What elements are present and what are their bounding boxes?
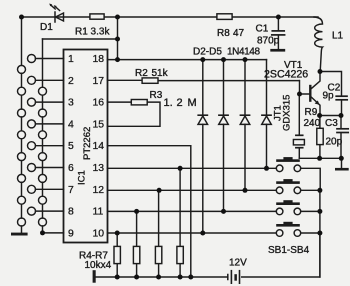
svg-text:2: 2 bbox=[177, 97, 183, 109]
inductor L1 bbox=[314, 17, 323, 72]
resistor R5 column bbox=[136, 211, 138, 277]
svg-text:D2-D5: D2-D5 bbox=[193, 46, 222, 57]
svg-text:47: 47 bbox=[233, 28, 245, 39]
node pin3 pad bbox=[28, 98, 36, 106]
svg-text:R2: R2 bbox=[135, 68, 148, 79]
svg-text:4: 4 bbox=[68, 119, 74, 130]
wire rail2 top link to x=117.5 at y=39 bbox=[43, 38, 118, 40]
resistor R4 column bbox=[116, 233, 118, 277]
node pin5 pad bbox=[28, 142, 36, 150]
diode D5 bbox=[262, 114, 271, 116]
transistor VT1 bbox=[300, 72, 321, 116]
resistor R7 column bbox=[179, 168, 181, 277]
wire bottom supply y=277 bbox=[96, 233, 320, 277]
node pin6 pad bbox=[28, 164, 36, 172]
wire pin18 / diode common y=59.6 bbox=[108, 59, 267, 61]
svg-text:D1: D1 bbox=[40, 22, 53, 33]
node rail1 pads (circles) bbox=[18, 65, 26, 73]
wire collector to C2 bbox=[320, 72, 342, 96]
wire pin9 to rail2 bbox=[43, 232, 64, 234]
svg-text:9p: 9p bbox=[323, 91, 335, 102]
svg-text:240: 240 bbox=[304, 118, 321, 129]
resistor R8 bbox=[217, 14, 232, 20]
svg-text:12: 12 bbox=[93, 185, 105, 196]
svg-text:GDX315: GDX315 bbox=[282, 95, 293, 131]
resistor R9 bbox=[319, 116, 321, 159]
svg-text:R3: R3 bbox=[150, 90, 163, 101]
switch SB1 bbox=[276, 157, 301, 172]
svg-text:20p: 20p bbox=[326, 137, 343, 148]
switch SB4 bbox=[276, 222, 301, 237]
capacitor C1 bbox=[272, 17, 285, 49]
diode D4 column bbox=[244, 60, 246, 191]
wire top rail y=17 from left corner to L1 bbox=[22, 16, 319, 18]
capacitor C3 bbox=[340, 116, 342, 129]
diode D5 column bbox=[266, 60, 268, 169]
switch SB3 bbox=[276, 200, 301, 215]
svg-text:C3: C3 bbox=[325, 118, 338, 129]
diode D4 bbox=[240, 114, 249, 116]
wire pin17 R2 net bbox=[108, 79, 300, 81]
svg-text:R8: R8 bbox=[217, 28, 230, 39]
svg-text:16: 16 bbox=[93, 98, 105, 109]
resistor R2 bbox=[142, 78, 158, 83]
wire pin2 bbox=[36, 79, 64, 81]
wire pin5 bbox=[36, 145, 64, 147]
svg-text:10: 10 bbox=[93, 228, 105, 239]
resistor R1 bbox=[90, 14, 104, 19]
wire row2 pin12 bbox=[108, 189, 320, 191]
svg-text:3: 3 bbox=[68, 98, 74, 109]
svg-text:2SC4226: 2SC4226 bbox=[264, 69, 308, 81]
svg-text:9: 9 bbox=[68, 228, 74, 239]
ground left bbox=[11, 233, 28, 236]
diode D2 column bbox=[202, 60, 204, 233]
svg-text:7: 7 bbox=[68, 185, 74, 196]
svg-text:5: 5 bbox=[68, 141, 74, 152]
svg-text:17: 17 bbox=[93, 76, 105, 87]
wire row3 pin11 bbox=[108, 210, 320, 212]
LED D1 bbox=[49, 4, 63, 23]
svg-text:2: 2 bbox=[68, 76, 74, 87]
wire pin1 bbox=[36, 58, 64, 60]
battery GB 12V bbox=[228, 271, 240, 284]
svg-text:M: M bbox=[188, 97, 197, 109]
svg-text:6: 6 bbox=[68, 163, 74, 174]
wire base/osc bottom y=158.3 bbox=[299, 158, 341, 168]
svg-text:C1: C1 bbox=[256, 24, 269, 35]
svg-text:IC1: IC1 bbox=[77, 170, 88, 185]
wire pin3 bbox=[36, 101, 64, 103]
svg-text:15: 15 bbox=[93, 119, 105, 130]
IC IC1 PT2262 body bbox=[64, 50, 108, 243]
wire pin6 bbox=[36, 167, 64, 169]
wire row1 pin13 bbox=[108, 168, 321, 190]
svg-text:51k: 51k bbox=[152, 68, 169, 79]
switch SB2 bbox=[276, 179, 301, 194]
wire Vcc branch node x=117.5 bbox=[117, 17, 119, 60]
svg-text:13: 13 bbox=[93, 163, 105, 174]
svg-text:14: 14 bbox=[93, 141, 105, 152]
svg-text:SB1-SB4: SB1-SB4 bbox=[268, 245, 310, 256]
svg-text:10kx4: 10kx4 bbox=[85, 260, 112, 271]
ground right bbox=[335, 168, 349, 171]
wire rail1 left vertical x=21.5 bbox=[21, 17, 23, 233]
svg-text:870p: 870p bbox=[257, 36, 280, 47]
svg-text:PT2262: PT2262 bbox=[82, 127, 93, 160]
node pin4 pad bbox=[28, 120, 36, 128]
diode D2 bbox=[198, 114, 207, 116]
node pin8 pad bbox=[28, 207, 36, 215]
terminal bar bottom left bbox=[93, 270, 96, 283]
node pin2 pad bbox=[28, 76, 36, 84]
svg-text:11: 11 bbox=[93, 207, 104, 218]
svg-text:L1: L1 bbox=[332, 31, 344, 42]
svg-text:1.: 1. bbox=[164, 97, 173, 109]
resistor R6 column bbox=[158, 190, 160, 277]
wire pin16 R3 net bbox=[108, 102, 161, 126]
wire pin14 down x=190.8 bbox=[108, 146, 191, 277]
wire pin8 bbox=[36, 210, 64, 212]
svg-text:R1 3.3k: R1 3.3k bbox=[75, 27, 110, 38]
wire pin4 bbox=[36, 123, 64, 125]
diode D3 column bbox=[223, 60, 225, 212]
wire pin7 bbox=[36, 188, 64, 190]
node rail2 pads (circles) bbox=[39, 87, 47, 95]
node pin1 pad bbox=[28, 55, 36, 63]
svg-text:12V: 12V bbox=[229, 258, 247, 269]
pin numbers bbox=[68, 54, 104, 239]
wire emitter node y=115.5 bbox=[320, 115, 341, 117]
svg-text:1: 1 bbox=[68, 54, 74, 65]
resistor R3 bbox=[131, 100, 147, 105]
svg-text:18: 18 bbox=[93, 54, 105, 65]
wire button rail right x=319.9 bbox=[319, 190, 321, 277]
svg-text:R9: R9 bbox=[305, 107, 318, 118]
resonator JT1 bbox=[293, 94, 304, 158]
svg-text:1N4148: 1N4148 bbox=[227, 46, 260, 57]
ground under C1 bbox=[270, 49, 285, 52]
wire rail2 vertical x=42.5 bbox=[42, 39, 44, 233]
wire row4 pin10 bbox=[108, 232, 320, 234]
svg-text:8: 8 bbox=[68, 207, 74, 218]
diode D3 bbox=[219, 114, 228, 116]
node pin7 pad bbox=[28, 185, 36, 193]
capacitor C2 bbox=[336, 95, 347, 97]
